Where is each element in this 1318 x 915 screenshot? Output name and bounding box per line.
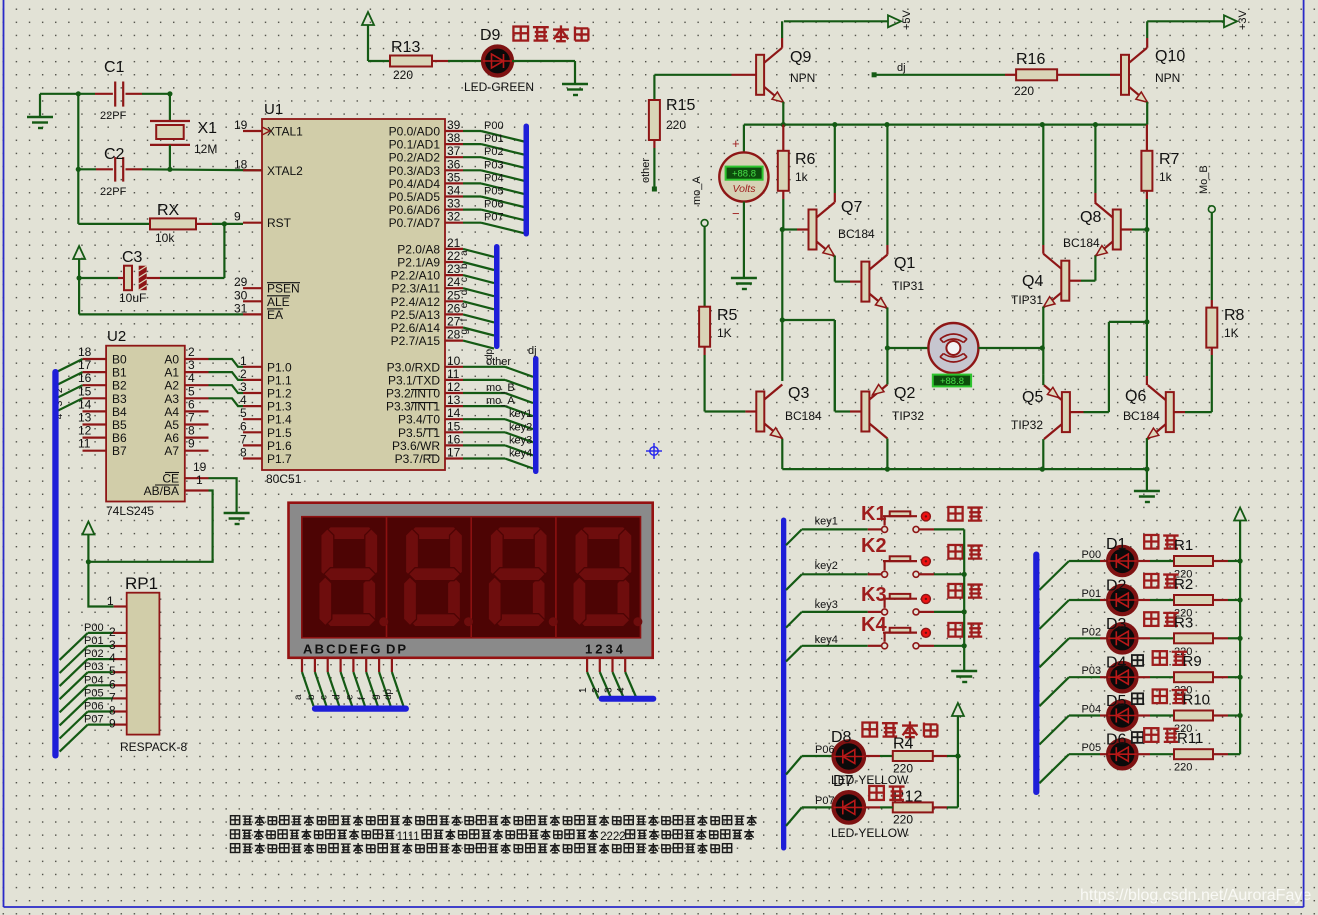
base wire <box>654 74 731 76</box>
svg-text:A4: A4 <box>164 405 179 419</box>
svg-text:Q2: Q2 <box>894 385 915 402</box>
resistor R10 220 <box>1150 714 1174 716</box>
svg-text:1: 1 <box>196 473 203 487</box>
svg-text:26: 26 <box>447 301 461 315</box>
wire <box>1094 193 1096 203</box>
svg-text:f: f <box>459 318 470 321</box>
svg-text:P05: P05 <box>484 186 504 198</box>
svg-text:AB/BA: AB/BA <box>144 484 179 498</box>
svg-text:Q10: Q10 <box>1155 48 1185 65</box>
pin dp <box>391 658 393 672</box>
transistor Q2 TIP32 <box>834 320 836 412</box>
svg-text:U2: U2 <box>107 328 126 345</box>
svg-text:7: 7 <box>188 411 195 425</box>
wire mo_B <box>463 392 505 394</box>
wire <box>77 94 79 170</box>
resistor R6 1k <box>782 125 784 151</box>
svg-text:dp: dp <box>383 688 394 700</box>
svg-text:1K: 1K <box>1224 326 1239 340</box>
svg-text:R4: R4 <box>893 736 914 753</box>
svg-text:P3.1/TXD: P3.1/TXD <box>388 373 440 387</box>
svg-text:P02: P02 <box>84 648 104 660</box>
svg-text:B7: B7 <box>112 444 127 458</box>
pin 11 B7 <box>83 450 107 452</box>
pin 8 P1.7 <box>243 457 262 459</box>
capacitor C2 <box>76 167 81 172</box>
pin 24 P2.3/A11 <box>445 287 463 289</box>
pin e <box>352 658 354 672</box>
svg-text:4: 4 <box>616 687 627 693</box>
svg-text:D4: D4 <box>1106 655 1127 672</box>
label 报警 <box>869 786 884 800</box>
pin 5 P03 <box>113 671 127 673</box>
wire B3 bus <box>58 398 83 411</box>
svg-text:16: 16 <box>447 432 461 446</box>
svg-text:P01: P01 <box>84 635 104 647</box>
pin 5 A3 <box>185 397 209 399</box>
svg-text:12: 12 <box>78 424 92 438</box>
svg-text:P05: P05 <box>84 687 104 699</box>
svg-text:P2.7/A15: P2.7/A15 <box>391 334 441 348</box>
crosshair marker <box>646 443 662 459</box>
svg-text:P07: P07 <box>84 714 104 726</box>
svg-text:R1: R1 <box>1174 537 1193 554</box>
resistor R2 220 <box>1150 599 1174 601</box>
svg-text:X1: X1 <box>198 120 218 137</box>
terminal Mo_B <box>1208 206 1215 213</box>
pin 11 P3.1/TXD <box>445 379 463 381</box>
label 菜单 <box>948 507 962 521</box>
node <box>76 91 81 96</box>
pin g <box>378 658 380 672</box>
svg-text:P1.7: P1.7 <box>267 452 292 466</box>
svg-text:BC184: BC184 <box>1063 236 1100 250</box>
svg-text:R13: R13 <box>391 39 420 56</box>
svg-text:LED-GREEN: LED-GREEN <box>464 80 534 94</box>
pin 34 P0.5/AD5 <box>445 195 463 197</box>
svg-text:key2: key2 <box>509 421 532 433</box>
pin 37 P0.2/AD2 <box>445 156 463 158</box>
svg-text:29: 29 <box>234 275 248 289</box>
LED D7 <box>786 807 802 826</box>
svg-text:P01: P01 <box>1082 588 1102 600</box>
svg-text:P06: P06 <box>84 701 104 713</box>
resistor R13 220 <box>390 56 432 67</box>
wire <box>512 60 575 62</box>
pin 21 P2.0/A8 <box>445 248 463 250</box>
LED D1 <box>1039 561 1069 590</box>
svg-text:2: 2 <box>188 345 195 359</box>
label 上电正常 <box>513 27 528 41</box>
svg-text:R6: R6 <box>795 151 816 168</box>
svg-text:1111: 1111 <box>397 831 420 843</box>
node <box>86 559 91 564</box>
rail wire <box>744 123 1147 125</box>
pin 3 P01 <box>113 645 127 647</box>
wire <box>782 319 835 321</box>
svg-text:NPN: NPN <box>790 71 815 85</box>
bus key <box>781 518 786 851</box>
node <box>780 317 785 322</box>
wire <box>60 725 88 752</box>
svg-text:P1.4: P1.4 <box>267 413 292 427</box>
svg-text:P01: P01 <box>484 133 504 145</box>
svg-text:P3.4/T0: P3.4/T0 <box>398 413 440 427</box>
svg-text:R11: R11 <box>1177 730 1203 747</box>
svg-text:dj: dj <box>897 62 906 74</box>
resistor R9 220 <box>1150 676 1174 678</box>
svg-text:P0.2/AD2: P0.2/AD2 <box>389 151 441 165</box>
svg-text:RESPACK-8: RESPACK-8 <box>120 740 187 754</box>
svg-text:C3: C3 <box>122 249 143 266</box>
bus LED <box>1033 552 1039 796</box>
svg-text:9: 9 <box>234 210 241 224</box>
svg-text:PSEN: PSEN <box>267 282 300 296</box>
wire key2 <box>463 431 505 433</box>
svg-text:R15: R15 <box>666 97 695 114</box>
pin 10 P3.0/RXD <box>445 366 463 368</box>
wire A1-P1.1 <box>209 372 244 380</box>
svg-text:P1.0: P1.0 <box>267 360 292 374</box>
svg-text:P2.1/A9: P2.1/A9 <box>397 256 440 270</box>
wire to EA <box>78 278 80 314</box>
node <box>885 345 890 350</box>
terminal dj <box>872 72 877 77</box>
pin 8 A6 <box>185 437 209 439</box>
svg-text:P03: P03 <box>1082 665 1102 677</box>
pin f <box>365 658 367 672</box>
svg-text:g: g <box>459 329 470 335</box>
wire <box>886 245 888 255</box>
pin 14 P3.4/T0 <box>445 418 463 420</box>
pin 36 P0.3/AD3 <box>445 169 463 171</box>
svg-text:key3: key3 <box>815 599 838 611</box>
transistor Q4 TIP31 <box>1081 280 1095 282</box>
terminal mo_A <box>701 220 708 227</box>
svg-text:P07: P07 <box>484 212 504 224</box>
capacitor C3 10uF <box>77 275 82 280</box>
LED D8 <box>786 756 802 775</box>
wire other <box>463 366 505 368</box>
wire <box>781 230 783 382</box>
power +3V <box>1147 20 1224 22</box>
resistor pack RP1 RESPACK-8 <box>127 593 160 735</box>
svg-text:B2: B2 <box>112 379 127 393</box>
pin 1 <box>586 658 588 672</box>
pin a <box>301 658 303 672</box>
wire P06 <box>463 209 481 211</box>
svg-text:key1: key1 <box>815 515 838 527</box>
svg-text:P2.2/A10: P2.2/A10 <box>391 269 441 283</box>
svg-text:C2: C2 <box>104 146 125 163</box>
wire key common <box>963 529 965 671</box>
pin 39 P0.0/AD0 <box>445 130 463 132</box>
svg-text:P06: P06 <box>484 199 504 211</box>
resistor R15 220 <box>653 75 655 100</box>
pin 29 PSEN <box>243 287 262 289</box>
svg-text:XTAL1: XTAL1 <box>267 125 303 139</box>
svg-text:3: 3 <box>604 687 615 693</box>
ground <box>39 94 41 117</box>
svg-text:d: d <box>459 290 470 296</box>
wire key1 <box>463 418 505 420</box>
svg-text:32: 32 <box>447 210 461 224</box>
svg-text:b: b <box>306 694 317 700</box>
svg-text:12: 12 <box>447 380 461 394</box>
svg-text:220: 220 <box>893 813 913 827</box>
pin 9 P07 <box>113 723 127 725</box>
pin 23 P2.2/A10 <box>445 274 463 276</box>
pin 7 P1.6 <box>243 444 262 446</box>
pin 1 P1.0 <box>243 366 262 368</box>
svg-text:B4: B4 <box>112 405 127 419</box>
svg-text:A6: A6 <box>164 431 179 445</box>
pin 6 P04 <box>113 684 127 686</box>
pin c <box>327 658 329 672</box>
wire g <box>463 328 494 336</box>
wire <box>368 60 390 62</box>
svg-text:K2: K2 <box>861 535 887 557</box>
wire <box>782 102 784 125</box>
svg-text:mo_B: mo_B <box>486 382 515 394</box>
transistor Q3 BC184 <box>756 392 764 432</box>
svg-text:21: 21 <box>447 236 461 250</box>
svg-text:C1: C1 <box>104 59 125 76</box>
wire <box>463 379 505 381</box>
transistor Q9 NPN <box>756 55 764 95</box>
pin 4 <box>624 658 626 672</box>
switch K2 <box>786 574 802 590</box>
pin 4 P1.3 <box>243 405 262 407</box>
wire A3-P1.3 <box>209 398 244 406</box>
svg-text:3: 3 <box>109 638 116 652</box>
svg-text:35: 35 <box>447 170 461 184</box>
pin 9 RST <box>243 222 262 224</box>
7-segment display 4-digit <box>289 503 653 658</box>
wire <box>1146 230 1148 322</box>
IC U2 74LS245 <box>106 346 185 502</box>
pin 38 P0.1/AD1 <box>445 143 463 145</box>
ground <box>951 671 977 682</box>
svg-text:7: 7 <box>240 432 247 446</box>
svg-text:1K: 1K <box>717 326 732 340</box>
svg-text:1: 1 <box>578 687 589 693</box>
pin 5 P1.4 <box>243 418 262 420</box>
svg-text:D7: D7 <box>833 773 854 790</box>
svg-text:5: 5 <box>109 664 116 678</box>
transistor Q6 BC184 <box>1166 392 1174 432</box>
pin 16 P3.6/WR <box>445 444 463 446</box>
svg-text:1234: 1234 <box>585 642 626 657</box>
svg-text:K1: K1 <box>861 503 887 525</box>
label 开始 <box>948 545 962 559</box>
svg-text:18: 18 <box>234 157 248 171</box>
label 洗衣 <box>1144 574 1158 588</box>
node <box>1144 319 1149 324</box>
svg-text:−: − <box>732 206 740 221</box>
svg-text:+88.8: +88.8 <box>732 169 756 180</box>
pin 2 <box>599 658 601 672</box>
label 结束 <box>1144 728 1158 742</box>
wire <box>1146 376 1148 385</box>
pin 26 P2.5/A13 <box>445 313 463 315</box>
svg-text:Mo_B: Mo_B <box>1198 165 1210 194</box>
pin d <box>340 658 342 672</box>
svg-text:B1: B1 <box>112 366 127 380</box>
resistor RX 10k <box>77 169 79 224</box>
wire <box>60 672 88 699</box>
svg-text:10: 10 <box>447 354 461 368</box>
pin 19 XTAL1 <box>243 130 262 132</box>
svg-text:P05: P05 <box>1082 742 1102 754</box>
bus P3 <box>533 356 539 474</box>
node <box>1238 675 1243 680</box>
pin 14 B4 <box>83 410 107 412</box>
svg-text:4: 4 <box>188 371 195 385</box>
svg-text:P0.7/AD7: P0.7/AD7 <box>389 216 441 230</box>
wire P04 <box>463 182 481 184</box>
wire <box>743 202 745 278</box>
resistor R1 220 <box>1150 560 1174 562</box>
svg-text:R5: R5 <box>717 307 738 324</box>
LED D5 <box>1039 716 1069 745</box>
svg-text:EA: EA <box>267 308 283 322</box>
svg-text:1k: 1k <box>795 170 809 184</box>
svg-text:9: 9 <box>109 717 116 731</box>
pin 18 B0 <box>83 358 107 360</box>
svg-text:10uF: 10uF <box>119 291 146 305</box>
svg-text:c: c <box>319 695 330 700</box>
pin 3 <box>611 658 613 672</box>
svg-text:P06: P06 <box>815 744 835 756</box>
pin 9 A7 <box>185 450 209 452</box>
svg-text:2222: 2222 <box>600 831 626 843</box>
svg-text:A1: A1 <box>164 366 179 380</box>
wire <box>223 224 225 278</box>
pin 2 A0 <box>185 358 209 360</box>
svg-text:31: 31 <box>234 301 248 315</box>
pin 12 P3.2/INT0 <box>445 392 463 394</box>
node <box>1144 467 1149 472</box>
pin 6 P1.5 <box>243 431 262 433</box>
svg-text:13: 13 <box>78 411 92 425</box>
svg-text:17: 17 <box>447 446 461 460</box>
bottom rail <box>781 439 783 470</box>
svg-text:P02: P02 <box>484 146 504 158</box>
transistor Q10 NPN <box>1121 55 1129 95</box>
svg-text:15: 15 <box>447 419 461 433</box>
svg-text:9: 9 <box>188 437 195 451</box>
svg-text:P3.3/INT1: P3.3/INT1 <box>386 400 440 414</box>
wire <box>60 659 88 686</box>
wire P02 <box>463 156 481 158</box>
svg-text:XTAL2: XTAL2 <box>267 164 303 178</box>
pin 15 B3 <box>83 397 107 399</box>
voltmeter <box>743 125 745 153</box>
svg-text:24: 24 <box>447 275 461 289</box>
pin 35 P0.4/AD4 <box>445 182 463 184</box>
svg-text:R3: R3 <box>1174 614 1193 631</box>
svg-text:ALE: ALE <box>267 295 290 309</box>
svg-text:Q6: Q6 <box>1125 388 1146 405</box>
svg-text:6: 6 <box>188 397 195 411</box>
svg-text:P04: P04 <box>1082 704 1102 716</box>
svg-text:D5: D5 <box>1106 693 1127 710</box>
bus digit bottom <box>599 696 657 702</box>
power arrow <box>1234 508 1246 521</box>
resistor R8 1K <box>1211 355 1213 412</box>
pin 33 P0.6/AD6 <box>445 209 463 211</box>
wire f <box>463 314 494 322</box>
svg-text:key4: key4 <box>815 634 838 646</box>
svg-text:P2.3/A11: P2.3/A11 <box>392 282 441 296</box>
svg-text:e: e <box>344 694 355 700</box>
svg-text:BC184: BC184 <box>1123 409 1160 423</box>
label 进水 <box>1144 535 1158 549</box>
svg-text:Q3: Q3 <box>788 385 809 402</box>
transistor Q7 BC184 <box>782 228 797 230</box>
svg-text:R7: R7 <box>1159 151 1180 168</box>
svg-text:A7: A7 <box>164 444 179 458</box>
svg-text:23: 23 <box>447 262 461 276</box>
svg-text:D9: D9 <box>480 27 501 44</box>
wire A0-P1.0 <box>209 359 244 367</box>
svg-text:33: 33 <box>447 197 461 211</box>
svg-text:22PF: 22PF <box>100 186 127 198</box>
svg-text:D2: D2 <box>1106 578 1127 595</box>
svg-text:R2: R2 <box>1174 576 1193 593</box>
svg-text:BC184: BC184 <box>838 227 875 241</box>
node <box>222 221 227 226</box>
svg-text:18: 18 <box>78 345 92 359</box>
svg-text:TIP32: TIP32 <box>892 409 924 423</box>
svg-text:NPN: NPN <box>1155 71 1180 85</box>
power arrow <box>82 522 94 535</box>
svg-text:19: 19 <box>234 118 248 132</box>
svg-text:R8: R8 <box>1224 307 1245 324</box>
pin 4 P02 <box>113 658 127 660</box>
svg-text:6: 6 <box>109 677 116 691</box>
svg-text:P2.5/A13: P2.5/A13 <box>391 308 441 322</box>
ground <box>1146 469 1148 491</box>
svg-text:5: 5 <box>240 406 247 420</box>
label 换水 <box>1153 689 1167 703</box>
power arrow <box>73 246 85 259</box>
wire P01 <box>463 143 481 145</box>
svg-text:D6: D6 <box>1106 732 1127 749</box>
wire P05 <box>463 195 481 197</box>
node <box>1238 597 1243 602</box>
wire key4 <box>463 457 505 459</box>
wire <box>834 193 836 203</box>
wire <box>781 38 783 48</box>
svg-text:RST: RST <box>267 216 292 230</box>
svg-text:P04: P04 <box>84 674 104 686</box>
wire <box>1042 374 1044 385</box>
wire <box>886 348 888 385</box>
svg-text:Q1: Q1 <box>894 255 915 272</box>
svg-text:R10: R10 <box>1183 692 1211 709</box>
label 停止 <box>948 584 962 598</box>
svg-text:P1.6: P1.6 <box>267 439 292 453</box>
wire P03 <box>463 169 481 171</box>
power arrow <box>952 703 964 716</box>
svg-text:P0.0/AD0: P0.0/AD0 <box>389 125 441 139</box>
capacitor C1 <box>95 93 113 95</box>
pin 15 P3.5/T1 <box>445 431 463 433</box>
svg-text:TIP31: TIP31 <box>892 279 924 293</box>
resistor R5 1K <box>703 226 705 306</box>
